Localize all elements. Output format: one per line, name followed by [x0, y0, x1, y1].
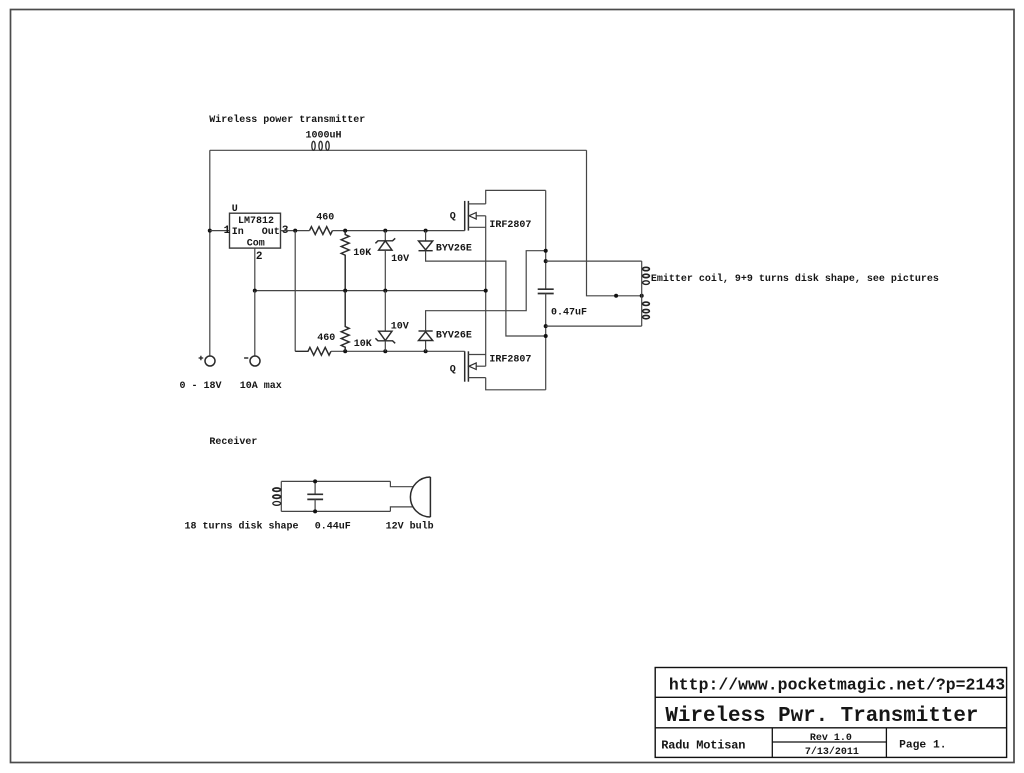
- node junction diode top: [424, 229, 428, 233]
- title block box: [655, 668, 1006, 758]
- svg-text:IRF2807: IRF2807: [489, 355, 531, 366]
- wire coil bottom: [546, 325, 642, 327]
- inductor L2 emitter coil: [642, 261, 650, 326]
- inductor L1 1000uH: [306, 131, 342, 151]
- wire mid ground rail: [255, 290, 486, 292]
- label: Wireless power transmitter: [209, 114, 365, 126]
- title author: [661, 738, 745, 752]
- capacitor C1 0.47uF: [538, 190, 587, 389]
- svg-text:18 turns disk shape: 18 turns disk shape: [185, 521, 299, 533]
- lamp 12V bulb: [390, 477, 430, 517]
- title rev: [810, 733, 852, 744]
- transistor Q1 IRF2807 (top): [450, 201, 532, 231]
- label 0.44uF: [315, 522, 351, 533]
- wire coil top: [546, 260, 642, 262]
- node junction 10K top: [343, 229, 347, 233]
- svg-text:Out: Out: [262, 227, 280, 238]
- wire pin1: [210, 230, 230, 232]
- svg-text:In: In: [232, 227, 244, 238]
- node junction cap rx top: [313, 479, 317, 483]
- svg-text:LM7812: LM7812: [238, 216, 274, 227]
- svg-text:BYV26E: BYV26E: [436, 244, 472, 255]
- capacitor C2 0.44uF: [307, 481, 323, 511]
- label 0 - 18V: [180, 381, 222, 392]
- svg-text:10V: 10V: [391, 254, 409, 265]
- node junction zener bottom: [383, 349, 387, 353]
- label 12V bulb: [386, 521, 434, 533]
- diode D4 BYV26E (bottom): [419, 251, 546, 352]
- wire minus terminal vertical: [254, 291, 256, 356]
- wire receiver bottom: [281, 510, 390, 512]
- label 18 turns disk shape: [185, 521, 299, 533]
- svg-text:1000uH: 1000uH: [306, 131, 342, 142]
- node junction cap bottom b: [544, 334, 548, 338]
- node junction source mid: [484, 289, 488, 293]
- svg-text:Wireless Pwr. Transmitter: Wireless Pwr. Transmitter: [665, 705, 978, 728]
- wire center tap from top rail: [587, 150, 642, 295]
- svg-text:U: U: [232, 204, 238, 215]
- wire top rail: [210, 149, 587, 151]
- node junction cap top b: [544, 259, 548, 263]
- node junction center tap coil: [640, 294, 644, 298]
- svg-text:Radu Motisan: Radu Motisan: [661, 738, 745, 752]
- diode D2 BYV26E (top): [419, 231, 546, 336]
- node junction center tap mid: [614, 294, 618, 298]
- svg-text:10A max: 10A max: [240, 381, 282, 392]
- wire pin2 vertical: [254, 248, 256, 291]
- wire gate rail bottom: [331, 350, 465, 352]
- svg-text:460: 460: [317, 333, 335, 344]
- svg-text:0.44uF: 0.44uF: [315, 522, 351, 533]
- svg-text:IRF2807: IRF2807: [489, 220, 531, 231]
- title page: [899, 739, 946, 751]
- svg-text:http://www.pocketmagic.net/?p=: http://www.pocketmagic.net/?p=2143: [669, 676, 1005, 695]
- label 10A max: [240, 381, 282, 392]
- node junction zener mid: [383, 289, 387, 293]
- resistor R1 460 (top): [310, 212, 335, 234]
- wire gate rail top: [333, 230, 465, 232]
- node junction diode bottom: [424, 349, 428, 353]
- svg-text:2: 2: [256, 251, 263, 263]
- resistor R3 10K (top): [341, 231, 371, 291]
- svg-text:460: 460: [316, 212, 334, 223]
- terminal +: [199, 356, 215, 366]
- svg-text:Wireless power transmitter: Wireless power transmitter: [209, 114, 365, 126]
- node junction cap bottom a: [544, 324, 548, 328]
- terminal -: [244, 356, 260, 366]
- node junction cap rx bottom: [313, 509, 317, 513]
- node junction pin1: [208, 229, 212, 233]
- wire receiver top: [281, 480, 390, 482]
- wire cross feed vertical: [294, 231, 296, 352]
- svg-text:Emitter coil, 9+9 turns disk s: Emitter coil, 9+9 turns disk shape, see …: [651, 273, 939, 285]
- label emitter coil: [651, 273, 939, 285]
- svg-text:0 - 18V: 0 - 18V: [180, 381, 222, 392]
- wire source vertical shared: [485, 216, 487, 366]
- svg-text:10V: 10V: [391, 321, 409, 332]
- node junction 10K mid: [343, 289, 347, 293]
- svg-text:Page 1.: Page 1.: [899, 739, 946, 751]
- svg-text:BYV26E: BYV26E: [436, 331, 472, 342]
- wire left vertical to + terminal: [209, 150, 211, 356]
- zener D3 10V (bottom): [375, 291, 408, 352]
- wire drain top: [486, 190, 546, 204]
- svg-text:10K: 10K: [354, 339, 372, 350]
- node junction minus rail: [253, 289, 257, 293]
- resistor R2 460 (bottom): [295, 333, 335, 355]
- node junction cap top a: [544, 249, 548, 253]
- svg-text:Rev 1.0: Rev 1.0: [810, 733, 852, 744]
- regulator U LM7812: [224, 204, 289, 263]
- svg-text:7/13/2011: 7/13/2011: [805, 746, 859, 758]
- svg-text:Receiver: Receiver: [209, 436, 257, 448]
- svg-text:Q: Q: [450, 212, 456, 223]
- node junction 10K bottom: [343, 349, 347, 353]
- svg-text:12V bulb: 12V bulb: [386, 521, 434, 533]
- svg-text:10K: 10K: [353, 248, 371, 259]
- wire drain bottom: [486, 378, 546, 390]
- title name text: [665, 705, 978, 728]
- svg-text:0.47uF: 0.47uF: [551, 308, 587, 319]
- node junction zener top: [383, 229, 387, 233]
- inductor L3 receiver coil: [273, 481, 281, 511]
- title date: [805, 746, 859, 758]
- transistor Q2 IRF2807 (bottom): [450, 351, 532, 381]
- svg-text:Com: Com: [247, 239, 265, 250]
- wire pin3 out: [281, 230, 310, 232]
- resistor R4 10K (bottom): [341, 291, 372, 352]
- svg-text:1: 1: [224, 225, 231, 237]
- node junction R2 top: [293, 229, 297, 233]
- zener D1 10V (top): [375, 231, 409, 291]
- svg-text:Q: Q: [450, 365, 456, 376]
- label: Receiver: [209, 436, 257, 448]
- title url text: [669, 676, 1005, 695]
